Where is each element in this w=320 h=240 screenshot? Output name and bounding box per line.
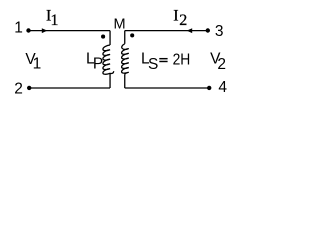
terminal node 3 [206, 28, 210, 32]
terminal node 2 [27, 86, 31, 90]
inductor LP coil loops [103, 45, 114, 74]
svg-text:M: M [114, 17, 126, 33]
svg-text:3: 3 [215, 23, 224, 40]
label = 2H [159, 58, 167, 62]
wire primary vertical bottom [109, 73, 111, 88]
terminal node 1 [26, 28, 30, 32]
svg-text:1: 1 [33, 56, 42, 73]
wire bottom-right (secondary bottom corner to terminal 4) [125, 87, 209, 89]
svg-text:1: 1 [14, 20, 23, 37]
svg-text:I: I [173, 7, 178, 24]
svg-text:P: P [93, 56, 103, 73]
wire bottom-left (primary bottom corner to terminal 2) [29, 87, 110, 89]
svg-text:4: 4 [218, 79, 227, 96]
wire secondary vertical bottom [124, 75, 126, 88]
terminal node 4 [207, 86, 211, 90]
svg-text:1: 1 [51, 12, 59, 29]
wire secondary vertical top [124, 31, 126, 44]
wire top-left (terminal 1 to primary top corner) [29, 30, 110, 32]
svg-text:S: S [148, 56, 158, 73]
svg-text:2H: 2H [173, 51, 191, 68]
polarity dot secondary [130, 33, 134, 37]
wire top-right (secondary top corner to terminal 3) [125, 30, 208, 32]
svg-text:2: 2 [179, 12, 187, 29]
wire primary vertical top [109, 31, 111, 45]
inductor LS coil loops [122, 44, 129, 75]
current arrow I1 [42, 28, 48, 33]
svg-text:2: 2 [217, 56, 226, 73]
svg-text:2: 2 [14, 80, 23, 97]
polarity dot primary [101, 35, 105, 39]
current arrow I2 [187, 28, 193, 33]
